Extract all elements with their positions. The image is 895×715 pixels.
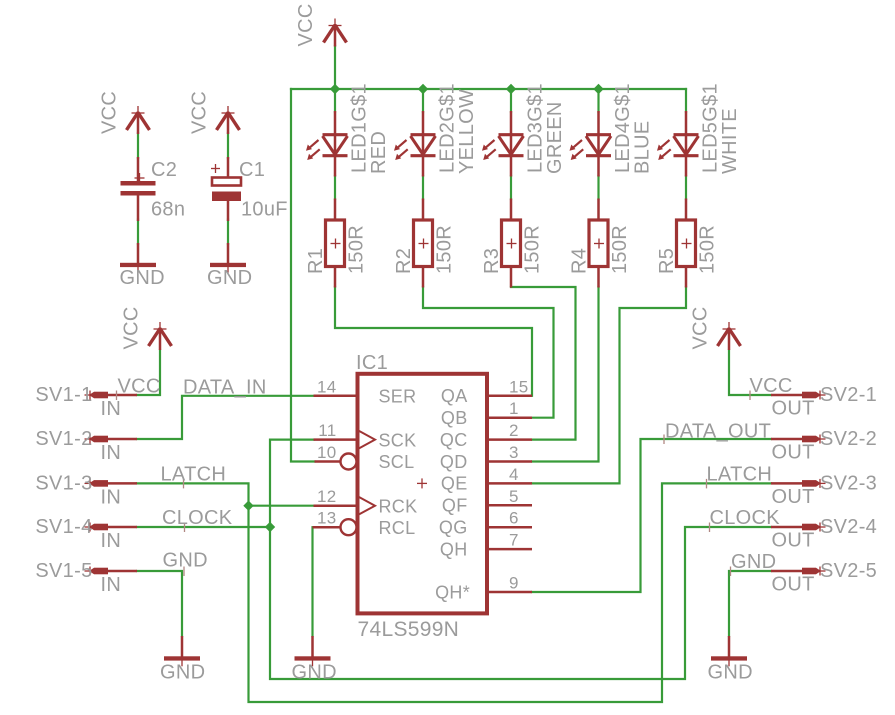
svg-text:10: 10: [317, 443, 337, 462]
svg-text:SV2-2: SV2-2: [820, 428, 877, 450]
svg-text:R5: R5: [656, 248, 678, 274]
svg-text:SCL: SCL: [379, 452, 415, 472]
svg-text:SV1-3: SV1-3: [35, 472, 92, 494]
svg-text:QA: QA: [441, 386, 468, 406]
svg-text:1: 1: [509, 399, 519, 418]
svg-text:QG: QG: [439, 518, 468, 538]
svg-text:VCC: VCC: [118, 376, 161, 398]
svg-text:OUT: OUT: [772, 442, 815, 464]
svg-text:QC: QC: [440, 430, 468, 450]
svg-text:150R: 150R: [609, 225, 631, 274]
svg-text:GND: GND: [120, 267, 165, 289]
svg-text:QH: QH: [440, 539, 468, 559]
svg-text:R2: R2: [393, 248, 415, 274]
svg-text:C1: C1: [239, 159, 265, 181]
svg-text:7: 7: [509, 531, 519, 550]
svg-text:3: 3: [509, 443, 519, 462]
svg-text:YELLOW: YELLOW: [456, 89, 478, 174]
svg-text:OUT: OUT: [772, 486, 815, 508]
svg-text:QF: QF: [442, 496, 468, 516]
svg-text:SV1-2: SV1-2: [35, 428, 92, 450]
svg-text:5: 5: [509, 487, 519, 506]
svg-text:9: 9: [509, 574, 519, 593]
svg-text:4: 4: [509, 465, 519, 484]
svg-text:R3: R3: [481, 248, 503, 274]
svg-text:OUT: OUT: [772, 398, 815, 420]
svg-text:IN: IN: [101, 398, 122, 420]
svg-text:SV1-4: SV1-4: [35, 516, 92, 538]
svg-text:IN: IN: [101, 530, 122, 552]
svg-text:DATA_IN: DATA_IN: [183, 377, 267, 399]
svg-text:GND: GND: [163, 550, 208, 572]
svg-text:CLOCK: CLOCK: [162, 507, 233, 529]
svg-text:LATCH: LATCH: [161, 464, 227, 486]
svg-text:GND: GND: [292, 662, 337, 684]
svg-text:RCK: RCK: [379, 496, 418, 516]
svg-text:QE: QE: [441, 474, 468, 494]
svg-text:RCL: RCL: [379, 518, 416, 538]
svg-text:CLOCK: CLOCK: [710, 507, 781, 529]
svg-text:VCC: VCC: [690, 306, 712, 349]
svg-text:IN: IN: [101, 442, 122, 464]
svg-text:11: 11: [318, 421, 336, 440]
svg-text:SCK: SCK: [379, 430, 417, 450]
svg-text:15: 15: [509, 377, 529, 396]
svg-text:13: 13: [317, 509, 337, 528]
svg-text:SV2-5: SV2-5: [820, 560, 877, 582]
svg-text:GND: GND: [708, 662, 753, 684]
svg-text:VCC: VCC: [99, 91, 121, 134]
svg-text:GND: GND: [160, 662, 205, 684]
svg-text:C2: C2: [151, 159, 177, 181]
svg-text:VCC: VCC: [189, 91, 211, 134]
svg-text:OUT: OUT: [772, 530, 815, 552]
svg-text:2: 2: [509, 421, 519, 440]
svg-text:12: 12: [317, 487, 337, 506]
svg-text:QD: QD: [440, 452, 468, 472]
svg-text:SV2-1: SV2-1: [820, 384, 877, 406]
svg-text:6: 6: [509, 509, 519, 528]
svg-text:SV2-4: SV2-4: [820, 516, 877, 538]
svg-text:74LS599N: 74LS599N: [358, 618, 460, 641]
svg-text:R1: R1: [305, 248, 327, 274]
svg-text:150R: 150R: [697, 225, 719, 274]
svg-text:OUT: OUT: [772, 574, 815, 596]
svg-text:SER: SER: [379, 387, 417, 407]
svg-text:WHITE: WHITE: [719, 108, 741, 174]
svg-text:VCC: VCC: [750, 375, 793, 397]
svg-text:14: 14: [317, 377, 337, 396]
svg-text:R4: R4: [569, 248, 591, 274]
svg-text:SV2-3: SV2-3: [820, 472, 877, 494]
svg-text:SV1-5: SV1-5: [35, 560, 92, 582]
svg-text:GND: GND: [207, 267, 252, 289]
svg-text:DATA_OUT: DATA_OUT: [665, 421, 771, 443]
svg-text:GND: GND: [731, 551, 776, 573]
svg-text:BLUE: BLUE: [632, 121, 654, 174]
svg-text:IN: IN: [101, 574, 122, 596]
svg-text:QB: QB: [441, 408, 468, 428]
svg-text:150R: 150R: [522, 225, 544, 274]
svg-text:GREEN: GREEN: [544, 101, 566, 174]
svg-text:QH*: QH*: [435, 582, 470, 602]
svg-text:150R: 150R: [434, 225, 456, 274]
svg-text:10uF: 10uF: [241, 199, 288, 221]
svg-text:RED: RED: [368, 131, 390, 174]
svg-text:SV1-1: SV1-1: [35, 384, 92, 406]
svg-text:150R: 150R: [346, 225, 368, 274]
svg-text:IN: IN: [101, 486, 122, 508]
svg-text:VCC: VCC: [121, 306, 143, 349]
svg-text:IC1: IC1: [356, 352, 388, 374]
svg-text:68n: 68n: [151, 199, 185, 221]
svg-text:VCC: VCC: [295, 3, 317, 46]
svg-text:LATCH: LATCH: [707, 464, 773, 486]
